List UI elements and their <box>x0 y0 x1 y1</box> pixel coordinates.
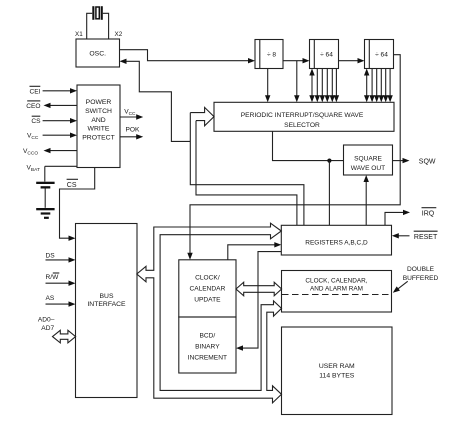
label DOUBLE BUFFERED with pointer arrow <box>393 266 439 293</box>
ground <box>36 208 54 219</box>
wire rate-select bus B from registers to selector <box>196 121 297 226</box>
periodic interrupt/square wave selector box <box>214 102 394 131</box>
svg-text:DS: DS <box>46 252 56 259</box>
wrap-around data bus with arrows into registers, bus interface, alarm RAM, user RAM <box>137 223 282 403</box>
open arrow into selector <box>190 107 214 125</box>
battery BT1 <box>36 166 54 208</box>
wire CS input <box>31 116 77 125</box>
svg-text:SELECTOR: SELECTOR <box>284 122 320 129</box>
user RAM box <box>282 327 393 415</box>
svg-text:CEI: CEI <box>30 88 41 95</box>
wire rate-select bus A from registers to selector <box>190 113 304 226</box>
svg-text:RESET: RESET <box>414 234 438 241</box>
svg-text:CS: CS <box>67 182 77 189</box>
clock/calendar update box <box>179 260 236 317</box>
wire registers to BCD/binary increment <box>236 252 281 351</box>
divider U2 (divide by 8) box <box>255 40 283 69</box>
svg-text:USER RAM: USER RAM <box>319 363 355 370</box>
svg-text:BUS: BUS <box>100 293 114 300</box>
wire divider U2 down to selector <box>265 69 270 103</box>
BCD/binary increment box <box>179 317 236 373</box>
wire R/W input <box>46 273 76 286</box>
divider U4 (divide by 64) box <box>365 40 394 69</box>
divider U3 (divide by 64) box <box>310 40 339 69</box>
svg-text:BUFFERED: BUFFERED <box>403 275 439 282</box>
wire RESET input <box>392 231 438 241</box>
wire junction down to registers <box>328 161 330 226</box>
svg-text:DOUBLE: DOUBLE <box>407 266 435 273</box>
label AD0-AD7 <box>38 316 55 332</box>
svg-text:CLOCK, CALENDAR,: CLOCK, CALENDAR, <box>305 277 367 284</box>
wire Vcc output of power switch <box>120 109 143 120</box>
svg-text:CLOCK/: CLOCK/ <box>195 274 220 281</box>
svg-text:BCD/: BCD/ <box>200 332 216 339</box>
power switch U1 box <box>77 85 120 168</box>
wire Vcc input <box>27 133 77 142</box>
double-buffer dashed divider line <box>282 294 391 296</box>
svg-text:WAVE OUT: WAVE OUT <box>351 165 385 172</box>
svg-text:÷ 64: ÷ 64 <box>375 51 388 58</box>
svg-text:POWER: POWER <box>86 99 112 106</box>
svg-text:VBAT: VBAT <box>27 164 40 173</box>
svg-text:REGISTERS A,B,C,D: REGISTERS A,B,C,D <box>305 240 368 247</box>
square wave out box <box>344 145 393 175</box>
wire divider U4 output to clock/calendar update <box>187 55 400 260</box>
svg-text:UPDATE: UPDATE <box>194 296 221 303</box>
wire divider U2 to divider U3 <box>283 58 310 63</box>
svg-text:INCREMENT: INCREMENT <box>188 354 227 361</box>
svg-text:AD0–: AD0– <box>38 316 55 323</box>
svg-text:AND: AND <box>91 117 105 124</box>
svg-text:114 BYTES: 114 BYTES <box>319 373 354 380</box>
svg-text:CS: CS <box>31 118 41 125</box>
wire OSC output to divider U2 <box>120 50 256 64</box>
svg-text:R/W: R/W <box>46 274 60 281</box>
svg-text:AND ALARM RAM: AND ALARM RAM <box>310 286 363 293</box>
wire feedback into OSC from register bus <box>120 59 191 142</box>
svg-text:X2: X2 <box>115 31 123 38</box>
wire VBAT input <box>27 164 78 173</box>
crystal Y1 <box>87 6 109 39</box>
wire divider U3 to divider U4 <box>339 58 365 63</box>
svg-text:OSC.: OSC. <box>89 51 106 58</box>
svg-text:PERIODIC INTERRUPT/SQUARE WAVE: PERIODIC INTERRUPT/SQUARE WAVE <box>241 112 364 119</box>
svg-text:CEO: CEO <box>26 103 40 110</box>
svg-text:IRQ: IRQ <box>422 211 435 218</box>
svg-text:÷ 8: ÷ 8 <box>267 51 276 58</box>
svg-text:INTERFACE: INTERFACE <box>87 301 126 308</box>
svg-text:AS: AS <box>46 295 55 302</box>
svg-text:AD7: AD7 <box>41 325 54 332</box>
svg-text:SWITCH: SWITCH <box>85 108 112 115</box>
oscillator OSC box <box>76 39 120 67</box>
svg-text:÷ 64: ÷ 64 <box>320 51 333 58</box>
wire Vcco output <box>23 148 77 157</box>
bus interface box <box>76 224 138 398</box>
svg-text:SQW: SQW <box>419 159 436 166</box>
svg-text:SQUARE: SQUARE <box>354 155 382 162</box>
clock, calendar, and alarm RAM box <box>282 271 392 313</box>
wire tap junction down to selector <box>294 61 299 103</box>
svg-text:PROTECT: PROTECT <box>82 135 114 142</box>
wire CEO output <box>26 101 77 110</box>
label CS near battery <box>67 179 78 189</box>
svg-text:VCC: VCC <box>124 109 136 118</box>
wire POK output of power switch <box>120 127 143 140</box>
bidirectional bus arrow AD0-AD7 <box>53 330 76 343</box>
svg-text:BINARY: BINARY <box>195 343 220 350</box>
wire CS net from power switch to bus interface <box>60 168 95 241</box>
svg-text:WRITE: WRITE <box>88 126 110 133</box>
svg-text:VCC: VCC <box>27 133 39 142</box>
wire DS input <box>46 252 76 262</box>
wire SQW output <box>393 158 436 166</box>
wire AS input <box>46 295 76 307</box>
wire group divider U3 taps to selector <box>309 69 339 103</box>
svg-text:CALENDAR: CALENDAR <box>189 285 225 292</box>
wire registers to square wave out <box>364 175 369 225</box>
wire IRQ output <box>385 208 436 226</box>
wire selector output to square wave out <box>273 131 344 160</box>
wire update logic to registers <box>228 242 281 260</box>
bidirectional bus arrow update logic to alarm RAM <box>236 282 282 296</box>
svg-text:X1: X1 <box>75 31 83 38</box>
wire CEI input <box>30 86 78 95</box>
svg-text:POK: POK <box>126 127 141 134</box>
registers A,B,C,D box <box>281 225 391 255</box>
svg-text:VCCO: VCCO <box>23 148 38 157</box>
junction node dot <box>327 159 331 163</box>
wire group divider U4 taps to selector <box>364 69 393 103</box>
